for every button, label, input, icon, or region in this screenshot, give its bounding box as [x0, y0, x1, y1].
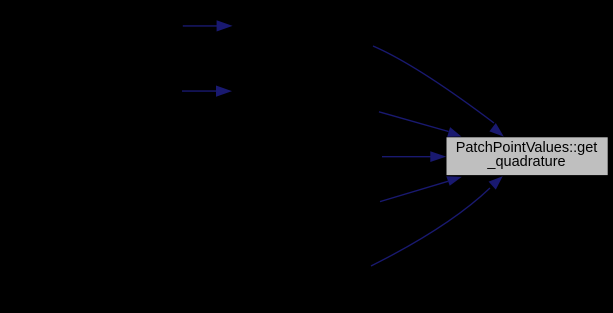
svg-text:_quadrature: _quadrature: [486, 154, 565, 170]
edge E1 (top curve into node top edge): [373, 46, 504, 137]
edge E3 (horizontal into node left edge): [382, 151, 446, 162]
edge arrow A1 (top-left horizontal): [183, 20, 233, 31]
edge arrow A2 (second horizontal): [182, 86, 232, 97]
edge E5 (long bottom curve into node bottom edge): [371, 176, 503, 266]
edge E2 (shallow line into node top edge): [379, 112, 461, 137]
node PatchPointValues::get_quadrature: [447, 137, 608, 175]
edge E4 (line up into node bottom edge): [380, 176, 462, 201]
